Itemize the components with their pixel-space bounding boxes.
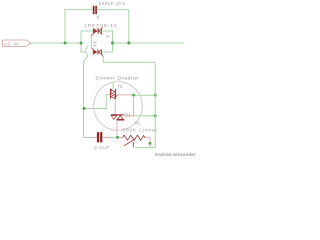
wire T4 top terminal: [112, 82, 114, 89]
wire mid segment over pin: [114, 104, 116, 109]
node main line at x128.8: [127, 42, 130, 45]
svg-text:8: 8: [97, 15, 100, 20]
svg-text:Andrew Alexander: Andrew Alexander: [155, 152, 196, 157]
wire main AC line right segment: [113, 42, 184, 44]
node R1 right: [149, 142, 152, 145]
quadrac package circle: [94, 82, 143, 131]
wire right rail vertical: [135, 62, 155, 147]
svg-text:Dimmer Quadrac: Dimmer Quadrac: [96, 75, 140, 81]
svg-text:D1: D1: [125, 113, 131, 118]
TVS diode D lower: [92, 48, 104, 57]
svg-text:600pF 2kV: 600pF 2kV: [99, 1, 126, 6]
TVS diode D upper (1PKT06-12): [91, 28, 102, 36]
R1 wiper arrow: [124, 139, 136, 148]
pin cap right: [102, 136, 110, 138]
capacitor 0.1uF plates: [97, 132, 102, 142]
svg-text:AC IN: AC IN: [4, 41, 19, 47]
node diac right rail: [154, 114, 157, 117]
wire from node to triac MT1: [84, 94, 110, 108]
pin D1 right: [124, 115, 134, 117]
potentiometer R1 zigzag: [122, 135, 145, 140]
wire S-curve down from package circle: [84, 57, 90, 138]
wire gate down to diac right: [134, 95, 156, 116]
pin R1 right: [145, 138, 150, 144]
tiny name label smudge upper TVS: [106, 36, 109, 38]
svg-text:T4: T4: [117, 84, 123, 89]
pin T4 gate: [118, 94, 134, 96]
svg-text:500K Linear: 500K Linear: [122, 128, 158, 134]
wire main AC line left segment: [31, 42, 82, 44]
package circle around lower TVS: [86, 45, 88, 56]
svg-text:0.1uF: 0.1uF: [94, 145, 110, 150]
wire upper TVS branch: [81, 31, 113, 43]
svg-text:1PKT06-12: 1PKT06-12: [84, 23, 118, 29]
wire lower branch right: [102, 43, 113, 52]
svg-text:R1: R1: [135, 121, 141, 126]
pin T4 MT to diac: [114, 99, 116, 114]
tiny text smudges lower TVS labels: [93, 42, 96, 43]
wire gate cross-connect vertical: [90, 36, 92, 48]
node main line at x112.5: [111, 42, 114, 45]
node RC junction: [116, 136, 119, 139]
AC IN flag: [3, 40, 31, 47]
wire lower branch left: [81, 43, 86, 52]
node gate rail left: [132, 94, 135, 97]
wire cap branch left vertical: [65, 10, 93, 43]
pin R1 left: [118, 137, 123, 139]
node junction on left vertical: [83, 107, 86, 110]
node main line at x65: [64, 42, 67, 45]
wire lower gate to x155 rail: [103, 57, 155, 63]
pin D1 bottom: [116, 121, 118, 136]
pin cap left: [90, 136, 97, 138]
capacitor C8 600pF 2kV plates: [93, 6, 97, 14]
node main line at x81: [80, 42, 83, 45]
wire cap branch right return: [97, 10, 129, 43]
wire stub up to R1 node: [149, 143, 151, 147]
triac T4: [110, 89, 118, 99]
wire gate rail horizontal: [134, 94, 156, 96]
node gate rail right: [154, 94, 157, 97]
wire D1 bottom to RC node: [116, 132, 119, 137]
diac D1: [111, 114, 125, 120]
wire cap to RC node: [110, 136, 118, 138]
